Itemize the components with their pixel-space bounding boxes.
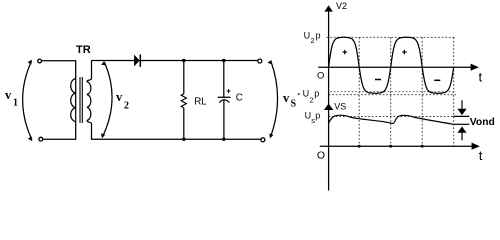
- junction node top C: [222, 59, 225, 62]
- svg-text:S: S: [291, 99, 297, 110]
- resistor RL: [183, 61, 185, 94]
- dashed grid vertical at waveform end: [453, 37, 455, 146]
- terminal top-left: [38, 59, 42, 63]
- svg-text:U: U: [305, 111, 312, 121]
- svg-text:U: U: [304, 30, 311, 40]
- dashed grid vertical at third zero crossing: [421, 37, 423, 146]
- bottom rail right: [92, 138, 261, 140]
- dashed grid vertical at first zero crossing: [358, 37, 360, 146]
- svg-text:v: v: [116, 90, 123, 104]
- peak dashed line: [327, 36, 457, 38]
- transformer core: [79, 77, 81, 123]
- svg-text:U: U: [303, 89, 310, 99]
- label -U2p: [298, 93, 300, 94]
- wire diode to output: [141, 60, 258, 62]
- wire secondary to diode: [92, 60, 135, 62]
- output VS bracket: [271, 62, 278, 137]
- Usp dashed line: [329, 115, 454, 117]
- junction node bottom RL: [182, 138, 185, 141]
- svg-text:2: 2: [310, 95, 314, 104]
- svg-text:p: p: [315, 111, 320, 121]
- svg-text:v: v: [283, 91, 290, 105]
- plus sign 2: [402, 51, 406, 53]
- V2 bracket: [103, 63, 112, 137]
- svg-text:TR: TR: [76, 44, 91, 56]
- terminal bottom-right: [261, 138, 265, 142]
- svg-text:C: C: [236, 93, 243, 104]
- terminal bottom-left: [39, 137, 43, 141]
- down arrow: [461, 100, 463, 109]
- wire bottom-left rail: [43, 138, 76, 140]
- diode D: [134, 55, 139, 65]
- dashed grid vertical at second zero crossing: [390, 37, 392, 146]
- V2 sine waveform: [329, 37, 454, 93]
- minus sign 1: [375, 79, 381, 81]
- trough dashed lines: [330, 91, 456, 93]
- VS plot axis arrowhead: [324, 104, 333, 111]
- up arrow: [461, 132, 463, 140]
- source V1 bracket: [23, 61, 32, 139]
- svg-text:p: p: [316, 30, 321, 40]
- bottom t axis: [320, 145, 474, 147]
- svg-text:O: O: [317, 149, 325, 161]
- capacitor C: [223, 61, 225, 98]
- Vond upper ref line: [453, 115, 469, 117]
- svg-text:p: p: [314, 89, 319, 99]
- svg-text:1: 1: [13, 98, 18, 109]
- transformer primary winding: [71, 60, 76, 139]
- svg-text:Vond: Vond: [470, 117, 495, 128]
- svg-text:V2: V2: [336, 1, 347, 11]
- transformer secondary winding: [87, 60, 92, 139]
- svg-text:v: v: [5, 88, 12, 102]
- VS ripple waveform: [329, 115, 454, 124]
- junction node top RL: [182, 59, 185, 62]
- wire top-left rail: [42, 60, 76, 62]
- plus polarity mark: [227, 90, 231, 92]
- svg-text:t: t: [479, 70, 483, 85]
- terminal top-right: [258, 59, 262, 63]
- axis tick dots: [358, 145, 361, 148]
- svg-text:2: 2: [124, 101, 129, 112]
- junction node bottom C: [222, 138, 225, 141]
- plus sign 1: [343, 51, 347, 53]
- V2 plot vertical axis: [328, 7, 330, 191]
- minus sign 2: [434, 79, 440, 81]
- svg-text:O: O: [317, 70, 324, 81]
- svg-text:t: t: [479, 148, 483, 163]
- top t axis: [318, 66, 477, 68]
- svg-text:RL: RL: [194, 96, 207, 107]
- svg-text:2: 2: [311, 36, 315, 45]
- Vond lower ref line: [454, 123, 470, 125]
- svg-text:VS: VS: [334, 101, 346, 111]
